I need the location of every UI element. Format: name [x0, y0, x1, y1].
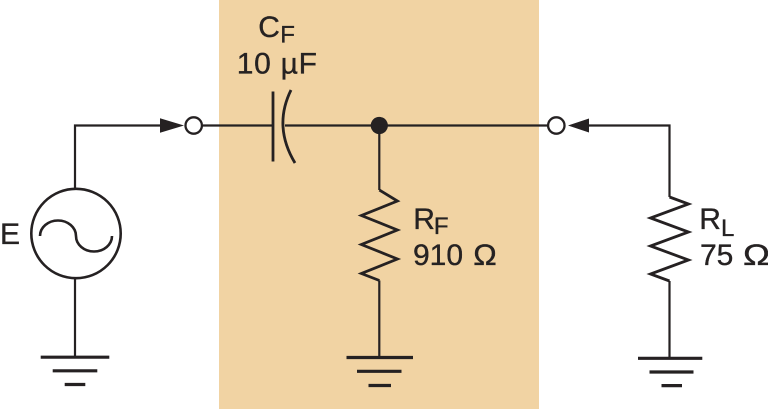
- svg-text:L: L: [721, 215, 734, 242]
- input terminal (open circle): [186, 117, 202, 133]
- highlighted filter section (tan band): [219, 0, 539, 409]
- capacitor CF left plate: [272, 92, 275, 162]
- svg-text:910: 910: [413, 239, 463, 272]
- svg-text:R: R: [699, 203, 721, 236]
- svg-text:F: F: [280, 22, 295, 49]
- svg-text:E: E: [0, 218, 20, 251]
- svg-text:Ω: Ω: [473, 239, 497, 272]
- wire: source top to input arrow: [75, 126, 162, 192]
- wire: input terminal to capacitor CF: [203, 124, 272, 126]
- arrowhead at input terminal: [160, 118, 184, 133]
- ground symbol under source E: [41, 357, 110, 384]
- AC source E (circle): [31, 189, 120, 278]
- ground symbol under RF: [347, 358, 414, 386]
- wire: resistor RF to ground: [378, 281, 380, 358]
- svg-text:C: C: [258, 11, 280, 44]
- wire: output arrow to RL top corner: [588, 126, 670, 198]
- arrowhead at output terminal: [568, 119, 589, 133]
- svg-text:Ω: Ω: [743, 239, 768, 272]
- ground symbol under RL: [638, 358, 702, 385]
- svg-text:R: R: [413, 203, 435, 236]
- wire: resistor RL to ground: [668, 281, 670, 358]
- svg-text:F: F: [434, 213, 449, 240]
- svg-text:10 µF: 10 µF: [237, 48, 318, 81]
- sine wave inside source E: [40, 221, 112, 252]
- node: junction of CF, RF and output: [371, 117, 388, 134]
- wire: node to output terminal: [379, 124, 548, 126]
- resistor RF: [361, 190, 397, 281]
- wire: node down to resistor RF: [378, 126, 380, 191]
- output terminal (open circle): [548, 117, 564, 133]
- wire: capacitor CF to node: [285, 124, 379, 126]
- resistor RL: [651, 197, 689, 281]
- svg-text:75: 75: [700, 239, 733, 272]
- wire: source E to ground: [74, 278, 76, 357]
- capacitor CF right curved plate: [283, 90, 295, 163]
